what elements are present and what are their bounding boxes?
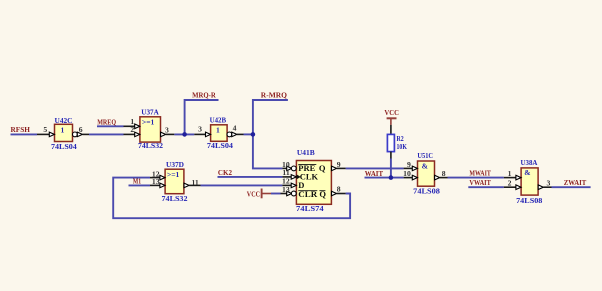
power port VCC at U41B pin 13 [247,189,281,199]
svg-text:13: 13 [152,177,160,186]
svg-text:R-MRQ: R-MRQ [261,91,287,100]
inverter U42C 74LS04 [37,116,89,151]
svg-text:74LS32: 74LS32 [162,194,188,203]
wire CK2 to U41B pin 11 [218,176,283,178]
svg-text:9: 9 [337,160,341,169]
svg-text:2: 2 [508,179,512,188]
svg-text:74LS32: 74LS32 [138,141,163,150]
svg-text:13: 13 [282,185,290,194]
wire U37A pin 3 to U42B pin 3 [174,133,194,135]
U38A pin 3 [538,185,543,190]
svg-text:1: 1 [216,126,220,135]
svg-text:2: 2 [130,125,134,134]
U41B pin 9 [332,166,337,171]
wire U41B pin 8 feedback loop to U37D pin 12 [113,178,350,219]
svg-text:74LS08: 74LS08 [413,186,440,195]
svg-text:U37D: U37D [166,160,184,169]
junction at U42B output [251,132,256,137]
svg-text:VCC: VCC [384,108,399,117]
svg-text:CK2: CK2 [218,168,232,177]
svg-text:9: 9 [407,160,411,169]
svg-text:8: 8 [337,185,341,194]
svg-text:VCC: VCC [247,189,260,198]
wire stub up to R-MRQ [253,100,288,134]
svg-text:U42B: U42B [210,116,227,125]
svg-text:U42C: U42C [55,116,73,125]
svg-text:RFSH: RFSH [11,125,30,134]
svg-text:4: 4 [233,123,237,132]
U37D pin 13 [150,184,160,186]
svg-text:&: & [524,168,530,177]
svg-text:74LS74: 74LS74 [296,204,324,213]
svg-text:Q: Q [319,163,326,173]
svg-text:3: 3 [165,125,169,134]
U38A pin 2 [504,186,516,188]
svg-text:VWAIT: VWAIT [469,178,491,187]
U37A pin 2 [124,133,135,135]
U37D pin 11 [184,183,189,188]
wire WAIT to U51C pin 10 [365,177,404,179]
svg-text:74LS04: 74LS04 [207,141,233,150]
svg-text:1: 1 [508,169,512,178]
svg-text:WAIT: WAIT [365,169,383,178]
wire R-MRQ down to U41B pin 10 [253,134,283,168]
svg-text:U51C: U51C [417,151,433,160]
junction at WAIT [389,175,394,180]
svg-text:74LS08: 74LS08 [516,196,543,205]
svg-text:5: 5 [43,125,47,134]
U41B pin 11 [282,176,291,178]
svg-text:6: 6 [79,125,83,134]
svg-text:8: 8 [442,169,446,178]
svg-text:10: 10 [403,169,411,178]
OR gate U37A 74LS32 [124,108,175,151]
svg-text:&: & [422,162,428,171]
wire stub up to MRQ-R [185,100,219,134]
svg-text:MREQ: MREQ [97,118,116,127]
U37A pin 1 [124,125,135,127]
svg-text:3: 3 [547,178,551,187]
OR gate U37D 74LS32 [150,160,201,203]
svg-text:>=1: >=1 [142,118,155,127]
junction at U37A output [182,132,187,137]
wire U51C pin 8 to U38A pin 1 [448,177,504,179]
svg-text:11: 11 [192,178,199,187]
U38A pin 1 [504,177,516,179]
wire U42B pin 4 to junction [244,133,253,135]
svg-text:MWAIT: MWAIT [469,169,491,178]
svg-text:ZWAIT: ZWAIT [564,178,587,187]
U51C pin 8 [435,175,440,180]
U37D pin 12 [150,177,160,179]
wire U41B pin 9 to U51C pin 9 [346,167,404,169]
D flip-flop U41B 74LS74 [281,148,346,213]
U42C pin 6 [73,132,78,137]
svg-text:U37A: U37A [141,108,159,117]
U42B pin 3 [194,133,205,135]
U41B pin 10 [282,167,287,169]
svg-text:3: 3 [198,124,202,133]
U51C pin 10 [404,177,413,179]
wire U42C pin 6 to U37A pin 2 [89,133,124,135]
svg-text:U41B: U41B [297,148,315,157]
U41B pin 12 [282,184,291,186]
U41B pin 8 [332,191,337,196]
U51C pin 9 [404,167,413,169]
wire M1 to U37D pin 13 [129,184,151,186]
wire MREQ to U37A pin 1 [97,125,124,127]
svg-text:>=1: >=1 [167,170,180,179]
resistor R2 10K [387,125,407,159]
wire U37D pin 11 to U41B pin 12 [201,184,283,186]
U42C pin 5 [37,133,50,135]
AND gate U51C 74LS08 [403,151,447,196]
inverter U42B 74LS04 [194,116,243,151]
power port VCC above R2 [384,108,399,125]
svg-text:1: 1 [61,126,65,135]
svg-text:74LS04: 74LS04 [51,142,77,151]
wire RFSH to U42C pin 5 [11,133,38,135]
U37A pin 3 [161,132,166,137]
wire U38A pin 3 to ZWAIT [552,186,591,188]
wire VWAIT to U38A pin 2 [468,186,504,188]
AND gate U38A 74LS08 [504,158,552,205]
svg-text:10K: 10K [397,142,407,151]
wire R2 down to WAIT junction [390,159,392,178]
svg-text:MRQ-R: MRQ-R [192,91,216,100]
U41B pin 13 [281,193,288,195]
svg-text:U38A: U38A [521,158,538,167]
U42B pin 4 [227,132,232,137]
